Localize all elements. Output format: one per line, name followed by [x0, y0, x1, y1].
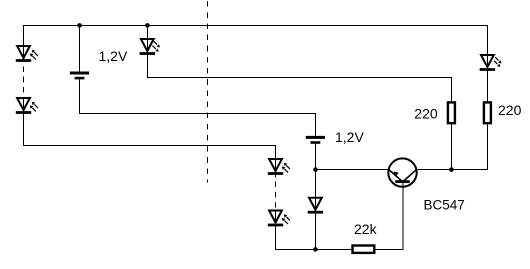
svg-text:1,2V: 1,2V — [99, 48, 128, 64]
svg-text:BC547: BC547 — [424, 197, 465, 212]
svg-text:220: 220 — [498, 102, 522, 118]
svg-text:220: 220 — [414, 105, 438, 121]
svg-text:22k: 22k — [354, 221, 378, 237]
svg-text:1,2V: 1,2V — [335, 129, 364, 145]
